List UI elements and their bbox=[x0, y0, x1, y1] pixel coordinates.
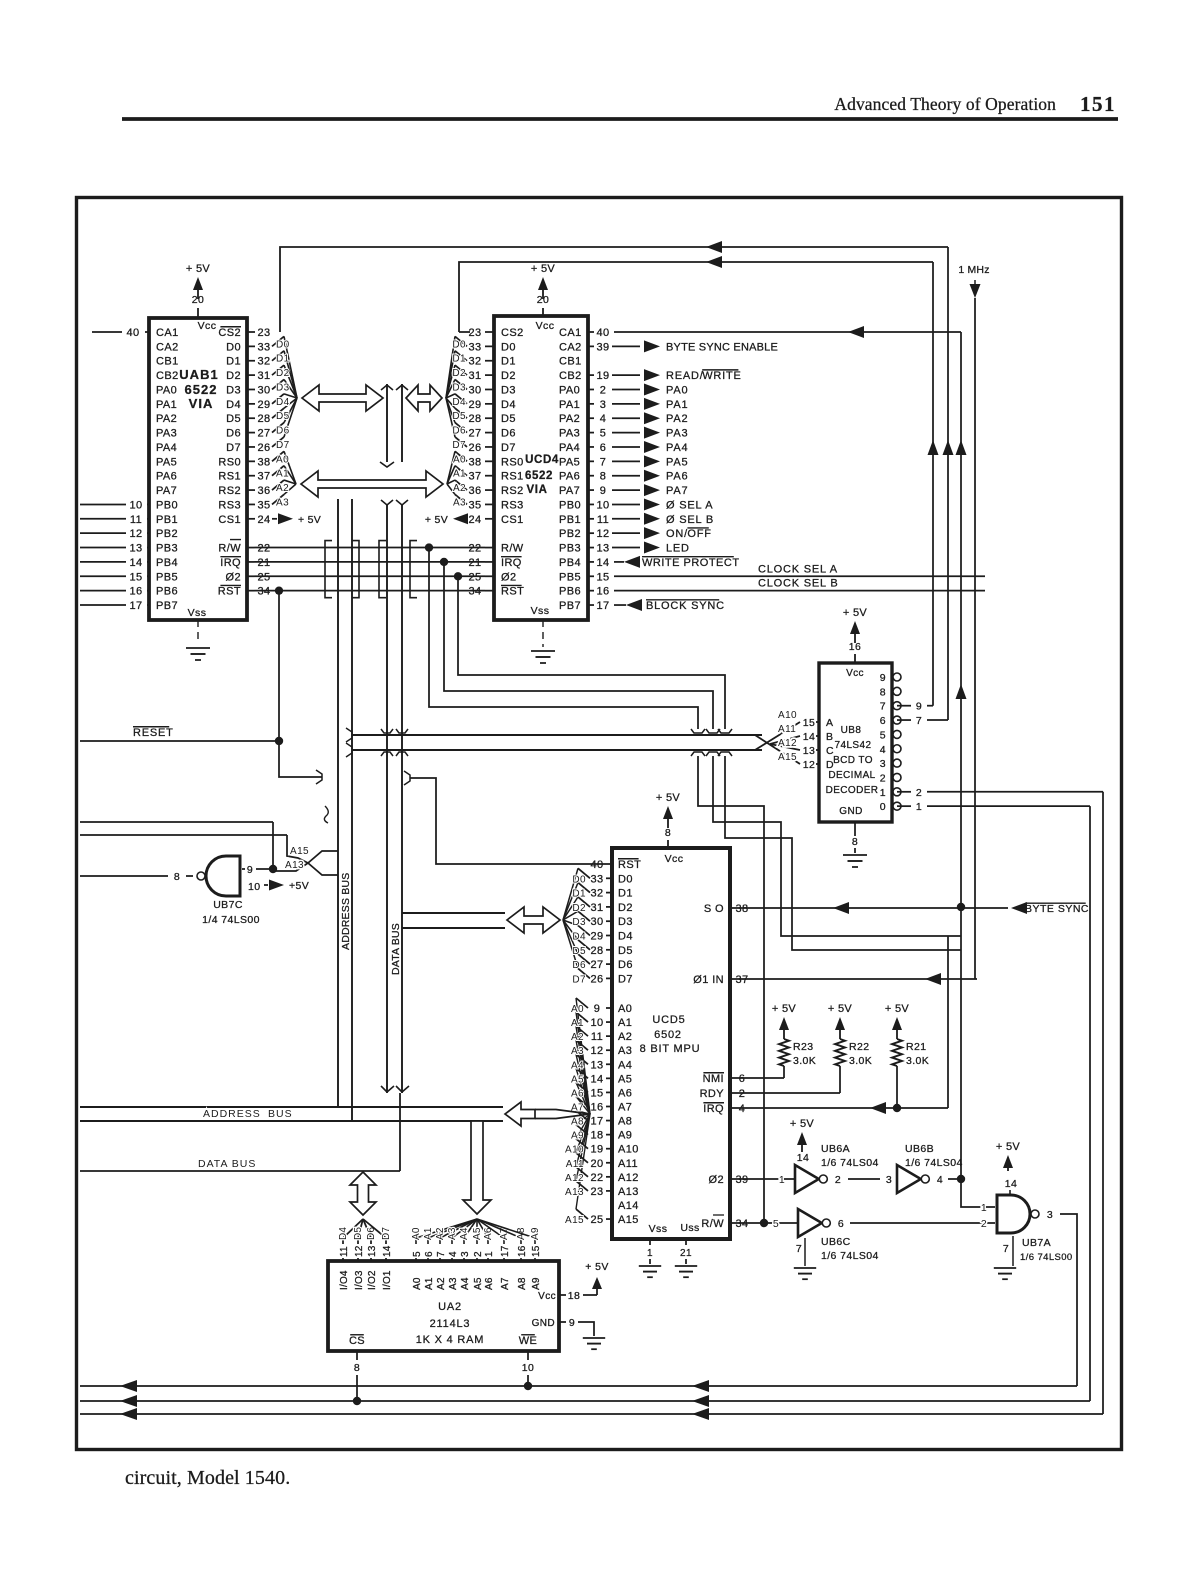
svg-text:7: 7 bbox=[796, 1243, 802, 1255]
svg-text:CS2: CS2 bbox=[218, 327, 241, 339]
svg-text:11: 11 bbox=[597, 514, 609, 526]
svg-text:3: 3 bbox=[460, 1251, 471, 1257]
svg-text:Vcc: Vcc bbox=[536, 320, 555, 332]
svg-text:A0: A0 bbox=[618, 1003, 632, 1015]
svg-text:PA2: PA2 bbox=[666, 413, 688, 425]
svg-text:A8: A8 bbox=[571, 1117, 584, 1128]
svg-text:12: 12 bbox=[590, 1045, 603, 1057]
svg-text:38: 38 bbox=[735, 903, 748, 915]
svg-text:UB6A: UB6A bbox=[821, 1143, 850, 1155]
svg-text:A1: A1 bbox=[453, 469, 466, 480]
svg-text:ADDRESS: ADDRESS bbox=[203, 1108, 261, 1120]
svg-text:A15: A15 bbox=[290, 846, 309, 857]
svg-text:17: 17 bbox=[596, 600, 609, 612]
svg-text:7: 7 bbox=[916, 715, 922, 727]
svg-text:10: 10 bbox=[248, 881, 260, 893]
svg-text:D3: D3 bbox=[572, 917, 586, 928]
svg-text:A12: A12 bbox=[778, 738, 797, 749]
svg-text:3.0K: 3.0K bbox=[849, 1055, 872, 1067]
svg-text:1: 1 bbox=[647, 1248, 653, 1259]
svg-text:CA2: CA2 bbox=[559, 341, 582, 353]
svg-text:PA7: PA7 bbox=[559, 485, 580, 497]
svg-text:A10: A10 bbox=[565, 1145, 584, 1156]
svg-text:CB1: CB1 bbox=[559, 356, 582, 368]
svg-text:11: 11 bbox=[591, 1031, 603, 1043]
svg-text:29: 29 bbox=[468, 399, 481, 411]
svg-text:PA2: PA2 bbox=[156, 413, 177, 425]
svg-text:VIA: VIA bbox=[189, 396, 214, 411]
svg-text:PB4: PB4 bbox=[559, 557, 581, 569]
svg-text:+ 5V: + 5V bbox=[772, 1003, 796, 1015]
svg-text:D5: D5 bbox=[501, 413, 516, 425]
svg-text:4: 4 bbox=[880, 744, 886, 756]
svg-text:+5V: +5V bbox=[289, 880, 309, 892]
svg-text:20: 20 bbox=[192, 294, 204, 306]
svg-text:21: 21 bbox=[257, 557, 270, 569]
svg-text:A5: A5 bbox=[571, 1074, 584, 1085]
svg-text:31: 31 bbox=[257, 370, 270, 382]
svg-text:A0: A0 bbox=[571, 1004, 584, 1015]
svg-text:+ 5V: + 5V bbox=[828, 1003, 852, 1015]
svg-text:A3: A3 bbox=[276, 497, 289, 508]
svg-text:8: 8 bbox=[852, 836, 858, 848]
svg-text:D0: D0 bbox=[572, 874, 586, 885]
svg-text:D1: D1 bbox=[572, 889, 586, 900]
svg-text:A1: A1 bbox=[618, 1017, 632, 1029]
svg-text:NMI: NMI bbox=[703, 1073, 724, 1085]
svg-text:CB1: CB1 bbox=[156, 356, 179, 368]
svg-text:PA4: PA4 bbox=[666, 442, 688, 454]
svg-text:PB1: PB1 bbox=[559, 514, 581, 526]
svg-text:24: 24 bbox=[257, 514, 270, 526]
svg-text:23: 23 bbox=[590, 1186, 603, 1198]
svg-text:13: 13 bbox=[590, 1059, 603, 1071]
svg-text:10: 10 bbox=[522, 1362, 534, 1374]
svg-text:1 MHz: 1 MHz bbox=[958, 264, 989, 276]
svg-text:6502: 6502 bbox=[654, 1029, 682, 1041]
svg-text:D6: D6 bbox=[501, 428, 516, 440]
svg-text:+ 5V: + 5V bbox=[298, 514, 321, 526]
svg-text:28: 28 bbox=[468, 413, 481, 425]
svg-text:PA3: PA3 bbox=[156, 428, 177, 440]
svg-text:READ/: READ/ bbox=[666, 370, 704, 382]
svg-text:CB2: CB2 bbox=[559, 370, 582, 382]
svg-text:PA7: PA7 bbox=[156, 485, 177, 497]
svg-text:D2: D2 bbox=[226, 370, 241, 382]
svg-text:PA1: PA1 bbox=[559, 399, 580, 411]
svg-text:6522: 6522 bbox=[525, 470, 553, 482]
svg-text:IRQ: IRQ bbox=[501, 557, 522, 569]
svg-text:9: 9 bbox=[916, 701, 922, 713]
svg-text:32: 32 bbox=[257, 356, 270, 368]
svg-text:D: D bbox=[826, 759, 834, 771]
svg-text:UB7C: UB7C bbox=[213, 899, 243, 911]
svg-text:A9: A9 bbox=[571, 1131, 584, 1142]
svg-text:D6: D6 bbox=[618, 959, 633, 971]
svg-text:+ 5V: + 5V bbox=[585, 1261, 609, 1273]
svg-text:D3: D3 bbox=[276, 382, 290, 393]
svg-text:1K X 4 RAM: 1K X 4 RAM bbox=[416, 1334, 485, 1346]
svg-text:LED: LED bbox=[666, 543, 690, 555]
svg-text:D5: D5 bbox=[572, 946, 586, 957]
svg-text:6: 6 bbox=[838, 1218, 844, 1230]
svg-text:9: 9 bbox=[880, 672, 886, 684]
svg-text:A11: A11 bbox=[778, 724, 796, 735]
svg-text:PA4: PA4 bbox=[559, 442, 580, 454]
svg-text:D1: D1 bbox=[226, 356, 241, 368]
svg-text:16: 16 bbox=[129, 586, 142, 598]
svg-text:D4: D4 bbox=[572, 932, 586, 943]
svg-text:11: 11 bbox=[339, 1246, 350, 1257]
svg-text:WE: WE bbox=[519, 1335, 538, 1347]
svg-text:CS1: CS1 bbox=[218, 514, 241, 526]
svg-text:39: 39 bbox=[735, 1174, 748, 1186]
svg-text:A2: A2 bbox=[436, 1277, 447, 1290]
svg-text:PB0: PB0 bbox=[156, 499, 178, 511]
svg-text:PB0: PB0 bbox=[559, 499, 581, 511]
svg-text:9: 9 bbox=[247, 864, 253, 876]
svg-text:PA6: PA6 bbox=[666, 471, 688, 483]
svg-text:A10: A10 bbox=[618, 1144, 639, 1156]
svg-text:A13: A13 bbox=[285, 860, 304, 871]
svg-text:D1: D1 bbox=[501, 356, 516, 368]
svg-text:25: 25 bbox=[468, 571, 481, 583]
svg-text:Ø2: Ø2 bbox=[226, 571, 241, 583]
svg-text:4: 4 bbox=[600, 413, 607, 425]
svg-text:A9: A9 bbox=[531, 1277, 542, 1290]
svg-text:Ø2: Ø2 bbox=[501, 571, 516, 583]
svg-text:Vcc: Vcc bbox=[665, 853, 684, 865]
svg-text:6: 6 bbox=[739, 1073, 746, 1085]
svg-text:CA2: CA2 bbox=[156, 341, 179, 353]
svg-text:Vss: Vss bbox=[531, 605, 550, 617]
svg-text:A8: A8 bbox=[517, 1277, 528, 1290]
svg-text:D4: D4 bbox=[226, 399, 241, 411]
svg-text:8: 8 bbox=[600, 471, 607, 483]
svg-text:11: 11 bbox=[130, 514, 142, 526]
svg-text:30: 30 bbox=[590, 916, 603, 928]
svg-text:RS2: RS2 bbox=[218, 485, 241, 497]
svg-text:RS0: RS0 bbox=[501, 456, 524, 468]
svg-text:OFF: OFF bbox=[687, 528, 711, 540]
svg-text:PB4: PB4 bbox=[156, 557, 178, 569]
svg-text:R23: R23 bbox=[793, 1041, 813, 1053]
svg-text:+ 5V: + 5V bbox=[531, 263, 555, 275]
svg-text:5: 5 bbox=[880, 729, 886, 741]
svg-text:23: 23 bbox=[468, 327, 481, 339]
svg-text:14: 14 bbox=[797, 1152, 809, 1164]
svg-text:DATA BUS: DATA BUS bbox=[198, 1158, 256, 1170]
svg-text:A3: A3 bbox=[453, 497, 466, 508]
svg-text:8: 8 bbox=[880, 686, 886, 698]
svg-text:D0: D0 bbox=[276, 339, 290, 350]
svg-text:35: 35 bbox=[257, 499, 270, 511]
svg-text:19: 19 bbox=[590, 1144, 603, 1156]
svg-text:PA3: PA3 bbox=[559, 428, 580, 440]
svg-text:74LS42: 74LS42 bbox=[835, 740, 872, 751]
svg-text:A15: A15 bbox=[565, 1215, 584, 1226]
svg-text:3.0K: 3.0K bbox=[793, 1055, 816, 1067]
svg-text:21: 21 bbox=[468, 557, 481, 569]
svg-text:A3: A3 bbox=[618, 1045, 632, 1057]
svg-text:A3: A3 bbox=[448, 1277, 459, 1290]
svg-text:A7: A7 bbox=[500, 1277, 511, 1290]
svg-text:20: 20 bbox=[537, 294, 549, 306]
svg-text:D5: D5 bbox=[353, 1227, 364, 1240]
svg-text:CS1: CS1 bbox=[501, 514, 524, 526]
svg-text:+ 5V: + 5V bbox=[790, 1118, 814, 1130]
svg-text:Ø2: Ø2 bbox=[709, 1174, 724, 1186]
svg-text:RST: RST bbox=[501, 586, 524, 598]
svg-text:VIA: VIA bbox=[527, 484, 548, 496]
svg-text:1/6 74LS00: 1/6 74LS00 bbox=[1020, 1252, 1073, 1263]
svg-text:UA2: UA2 bbox=[438, 1301, 462, 1313]
svg-text:Ø SEL A: Ø SEL A bbox=[666, 499, 713, 511]
svg-text:A: A bbox=[826, 717, 833, 729]
svg-text:A12: A12 bbox=[565, 1173, 584, 1184]
svg-text:RST: RST bbox=[218, 586, 241, 598]
svg-text:31: 31 bbox=[468, 370, 481, 382]
svg-text:15: 15 bbox=[590, 1087, 603, 1099]
svg-text:1/6 74LS04: 1/6 74LS04 bbox=[821, 1157, 879, 1169]
svg-text:D4: D4 bbox=[338, 1227, 349, 1240]
svg-text:A0: A0 bbox=[412, 1277, 423, 1290]
svg-text:16: 16 bbox=[517, 1245, 528, 1257]
svg-text:34: 34 bbox=[257, 586, 270, 598]
svg-text:9: 9 bbox=[569, 1317, 575, 1329]
svg-text:12: 12 bbox=[354, 1245, 365, 1257]
svg-text:WRITE PROTECT: WRITE PROTECT bbox=[642, 557, 740, 569]
svg-text:8: 8 bbox=[174, 871, 180, 883]
svg-text:28: 28 bbox=[257, 413, 270, 425]
svg-text:22: 22 bbox=[590, 1172, 603, 1184]
svg-text:14: 14 bbox=[590, 1073, 603, 1085]
svg-text:27: 27 bbox=[590, 959, 603, 971]
svg-text:15: 15 bbox=[129, 571, 142, 583]
svg-text:PB3: PB3 bbox=[559, 543, 581, 555]
svg-text:13: 13 bbox=[367, 1245, 378, 1257]
svg-text:D7: D7 bbox=[501, 442, 516, 454]
svg-text:14: 14 bbox=[596, 557, 609, 569]
svg-text:7: 7 bbox=[600, 456, 607, 468]
svg-text:36: 36 bbox=[468, 485, 481, 497]
svg-text:A9: A9 bbox=[530, 1227, 541, 1240]
svg-text:IRQ: IRQ bbox=[220, 557, 241, 569]
svg-text:D7: D7 bbox=[381, 1227, 392, 1240]
svg-text:9: 9 bbox=[594, 1003, 601, 1015]
svg-text:37: 37 bbox=[468, 471, 481, 483]
svg-text:27: 27 bbox=[468, 428, 481, 440]
svg-text:4: 4 bbox=[448, 1251, 459, 1257]
svg-text:A1: A1 bbox=[423, 1227, 434, 1240]
svg-text:D5: D5 bbox=[226, 413, 241, 425]
svg-text:D6: D6 bbox=[572, 960, 586, 971]
svg-text:PA6: PA6 bbox=[156, 471, 177, 483]
svg-text:D2: D2 bbox=[452, 368, 466, 379]
svg-text:Uss: Uss bbox=[680, 1222, 699, 1234]
svg-text:17: 17 bbox=[500, 1245, 511, 1257]
svg-text:13: 13 bbox=[803, 745, 815, 757]
svg-text:A11: A11 bbox=[566, 1159, 584, 1170]
svg-text:RS3: RS3 bbox=[501, 499, 524, 511]
svg-text:1: 1 bbox=[484, 1251, 495, 1257]
svg-text:RS2: RS2 bbox=[501, 485, 524, 497]
svg-text:D2: D2 bbox=[501, 370, 516, 382]
svg-text:PA0: PA0 bbox=[559, 384, 580, 396]
svg-text:CB2: CB2 bbox=[156, 370, 179, 382]
svg-text:DECIMAL: DECIMAL bbox=[828, 770, 875, 781]
svg-text:3: 3 bbox=[600, 399, 607, 411]
svg-text:ON/: ON/ bbox=[666, 528, 688, 540]
svg-text:2: 2 bbox=[600, 384, 607, 396]
svg-text:UB8: UB8 bbox=[841, 725, 862, 736]
svg-text:PA5: PA5 bbox=[666, 456, 688, 468]
svg-text:18: 18 bbox=[590, 1130, 603, 1142]
svg-text:RS3: RS3 bbox=[218, 499, 241, 511]
svg-text:D4: D4 bbox=[501, 399, 516, 411]
svg-text:GND: GND bbox=[839, 806, 862, 817]
svg-text:D3: D3 bbox=[618, 916, 633, 928]
svg-text:D4: D4 bbox=[276, 397, 290, 408]
svg-text:1/6 74LS04: 1/6 74LS04 bbox=[905, 1157, 963, 1169]
svg-text:D0: D0 bbox=[501, 341, 516, 353]
svg-text:R/W: R/W bbox=[218, 543, 241, 555]
svg-text:9: 9 bbox=[600, 485, 607, 497]
svg-text:A8: A8 bbox=[618, 1116, 632, 1128]
svg-text:+ 5V: + 5V bbox=[885, 1003, 909, 1015]
svg-text:D2: D2 bbox=[572, 903, 586, 914]
svg-text:24: 24 bbox=[468, 514, 481, 526]
svg-text:32: 32 bbox=[468, 356, 481, 368]
svg-text:25: 25 bbox=[257, 571, 270, 583]
svg-text:25: 25 bbox=[590, 1214, 603, 1226]
svg-text:PB2: PB2 bbox=[156, 528, 178, 540]
svg-text:7: 7 bbox=[1003, 1243, 1009, 1255]
svg-text:A15: A15 bbox=[618, 1214, 639, 1226]
svg-text:I/O1: I/O1 bbox=[382, 1270, 393, 1290]
svg-text:D0: D0 bbox=[452, 339, 466, 350]
svg-text:14: 14 bbox=[382, 1245, 393, 1257]
svg-text:34: 34 bbox=[735, 1218, 748, 1230]
svg-text:PA0: PA0 bbox=[156, 384, 177, 396]
svg-text:D1: D1 bbox=[276, 354, 290, 365]
svg-text:22: 22 bbox=[468, 543, 481, 555]
svg-text:A2: A2 bbox=[435, 1227, 446, 1240]
svg-text:PA1: PA1 bbox=[666, 399, 688, 411]
svg-text:PA4: PA4 bbox=[156, 442, 177, 454]
svg-text:Advanced Theory of Operation: Advanced Theory of Operation bbox=[834, 94, 1056, 114]
svg-text:A15: A15 bbox=[778, 752, 797, 763]
svg-text:DATA BUS: DATA BUS bbox=[390, 923, 402, 975]
svg-text:1: 1 bbox=[880, 787, 886, 799]
svg-text:29: 29 bbox=[590, 931, 603, 943]
svg-text:D0: D0 bbox=[226, 341, 241, 353]
svg-text:26: 26 bbox=[468, 442, 481, 454]
svg-text:16: 16 bbox=[590, 1101, 603, 1113]
svg-text:A0: A0 bbox=[453, 454, 466, 465]
svg-text:151: 151 bbox=[1080, 92, 1116, 116]
svg-text:A1: A1 bbox=[571, 1018, 584, 1029]
svg-text:A7: A7 bbox=[618, 1101, 632, 1113]
svg-text:16: 16 bbox=[849, 641, 861, 653]
svg-text:8 BIT MPU: 8 BIT MPU bbox=[640, 1043, 701, 1055]
svg-text:D4: D4 bbox=[618, 931, 633, 943]
svg-text:UB6C: UB6C bbox=[821, 1236, 851, 1248]
svg-text:PB5: PB5 bbox=[559, 571, 581, 583]
svg-text:B: B bbox=[826, 731, 833, 743]
svg-text:A4: A4 bbox=[460, 1277, 471, 1290]
svg-text:Vss: Vss bbox=[649, 1223, 668, 1235]
svg-text:33: 33 bbox=[257, 341, 270, 353]
svg-text:6522: 6522 bbox=[185, 382, 218, 397]
svg-text:Ø1 IN: Ø1 IN bbox=[693, 974, 724, 986]
svg-text:21: 21 bbox=[680, 1248, 692, 1259]
svg-text:1: 1 bbox=[981, 1202, 987, 1214]
svg-text:1: 1 bbox=[779, 1174, 785, 1186]
svg-text:PA1: PA1 bbox=[156, 399, 177, 411]
svg-text:13: 13 bbox=[596, 543, 609, 555]
svg-text:RS1: RS1 bbox=[501, 471, 524, 483]
svg-text:15: 15 bbox=[803, 717, 815, 729]
svg-text:D3: D3 bbox=[452, 382, 466, 393]
svg-text:40: 40 bbox=[590, 859, 603, 871]
svg-text:Vss: Vss bbox=[188, 607, 207, 619]
svg-text:I/O2: I/O2 bbox=[367, 1270, 378, 1290]
svg-text:UCD4: UCD4 bbox=[525, 454, 559, 466]
svg-text:2: 2 bbox=[835, 1174, 841, 1186]
svg-text:12: 12 bbox=[129, 528, 142, 540]
svg-text:10: 10 bbox=[590, 1017, 603, 1029]
svg-text:23: 23 bbox=[257, 327, 270, 339]
svg-text:D0: D0 bbox=[618, 873, 633, 885]
svg-text:D6: D6 bbox=[452, 426, 466, 437]
svg-text:A3: A3 bbox=[447, 1227, 458, 1240]
svg-text:R21: R21 bbox=[906, 1041, 926, 1053]
svg-text:7: 7 bbox=[880, 701, 886, 713]
svg-text:PB1: PB1 bbox=[156, 514, 178, 526]
svg-text:D7: D7 bbox=[452, 440, 466, 451]
svg-text:D3: D3 bbox=[501, 384, 516, 396]
svg-text:1/6 74LS04: 1/6 74LS04 bbox=[821, 1250, 879, 1262]
svg-text:10: 10 bbox=[129, 499, 142, 511]
svg-text:6: 6 bbox=[424, 1251, 435, 1257]
svg-text:2: 2 bbox=[473, 1251, 484, 1257]
svg-text:R22: R22 bbox=[849, 1041, 869, 1053]
svg-text:RST: RST bbox=[618, 859, 641, 871]
svg-text:PA7: PA7 bbox=[666, 485, 688, 497]
svg-text:8: 8 bbox=[665, 827, 671, 839]
svg-text:36: 36 bbox=[257, 485, 270, 497]
svg-text:2: 2 bbox=[739, 1088, 746, 1100]
svg-text:17: 17 bbox=[129, 600, 142, 612]
svg-text:1: 1 bbox=[916, 801, 922, 813]
svg-text:D5: D5 bbox=[452, 411, 466, 422]
svg-text:UAB1: UAB1 bbox=[179, 367, 218, 382]
svg-text:CLOCK SEL B: CLOCK SEL B bbox=[758, 578, 839, 590]
svg-text:29: 29 bbox=[257, 399, 270, 411]
svg-text:40: 40 bbox=[596, 327, 609, 339]
svg-text:A0: A0 bbox=[276, 454, 289, 465]
svg-text:12: 12 bbox=[596, 528, 609, 540]
svg-text:UB7A: UB7A bbox=[1022, 1237, 1051, 1249]
svg-text:D5: D5 bbox=[618, 945, 633, 957]
svg-text:A2: A2 bbox=[618, 1031, 632, 1043]
svg-text:+ 5V: + 5V bbox=[186, 263, 210, 275]
svg-text:Vcc: Vcc bbox=[846, 668, 864, 679]
svg-text:RS1: RS1 bbox=[218, 471, 241, 483]
svg-text:PA5: PA5 bbox=[559, 456, 580, 468]
svg-text:+ 5V: + 5V bbox=[996, 1141, 1020, 1153]
